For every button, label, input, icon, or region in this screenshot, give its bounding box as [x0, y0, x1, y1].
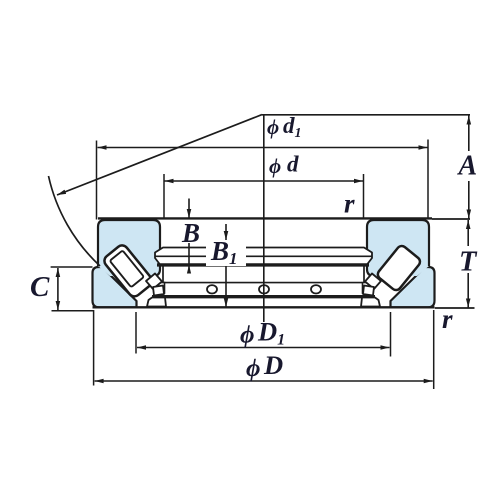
rivet circle right [311, 285, 321, 293]
ext line d1 left [96, 141, 98, 220]
cage bits left [146, 274, 162, 290]
svg-text:ϕ: ϕ [246, 355, 260, 382]
bearing top line [98, 217, 432, 219]
plate bottom thick edge [157, 263, 369, 266]
ext line D1 right [390, 312, 392, 357]
roller left [102, 243, 154, 299]
housing washer right lower block [391, 267, 435, 307]
svg-text:D: D [263, 350, 283, 380]
svg-text:ϕ: ϕ [269, 154, 281, 178]
plate chamfer line [155, 255, 372, 257]
sphere arc [49, 176, 101, 266]
rivet circle center [259, 285, 269, 293]
sleeve end line right [363, 266, 365, 284]
dim B1 tail bottom [225, 267, 227, 308]
shaft washer left upper block [98, 220, 160, 276]
dim T [467, 220, 469, 246]
cage end tab left [158, 283, 165, 294]
dim phi D1 [137, 347, 390, 349]
label B1 halo [206, 240, 246, 266]
dim B tail bottom [188, 243, 190, 271]
ext line D right [433, 310, 435, 389]
svg-text:r: r [344, 189, 355, 219]
dim B1 arrow top [225, 224, 227, 240]
svg-text:A: A [457, 151, 478, 182]
cage end tab right [363, 283, 370, 294]
svg-text:B: B [181, 218, 200, 248]
top reference line [262, 114, 470, 116]
svg-text:ϕ: ϕ [267, 115, 279, 139]
housing washer left lower block [93, 267, 137, 307]
ext line d1 right [427, 140, 429, 218]
bottom plate end left [151, 297, 153, 307]
bottom plate end right [374, 297, 376, 307]
C top ext [51, 266, 93, 268]
center axis line [263, 115, 265, 322]
ext line d left [163, 174, 165, 220]
svg-text:d: d [287, 152, 299, 177]
roller right [376, 244, 422, 292]
bearing bottom line [93, 306, 435, 308]
dim phi d [165, 180, 364, 182]
C bottom ext / phi D left ext [52, 311, 94, 386]
svg-text:ϕ: ϕ [240, 322, 254, 349]
leader diagonal [57, 115, 262, 195]
ext line D1 left [135, 312, 137, 354]
sleeve end line left [162, 266, 164, 284]
svg-text:d1: d1 [283, 113, 302, 141]
ext line d right [363, 174, 365, 220]
svg-text:r: r [442, 304, 453, 334]
dim phi d1 [98, 147, 428, 149]
dim C [57, 268, 59, 310]
A/T extension at top right [432, 218, 470, 220]
shaft washer right upper block [367, 220, 429, 276]
cage band [164, 282, 362, 284]
bottom right reference line [435, 307, 475, 309]
rivet circle left [207, 285, 217, 293]
svg-text:T: T [459, 247, 478, 278]
central washer plate (top) [155, 248, 372, 265]
svg-text:D1: D1 [257, 317, 285, 349]
dim phi D [95, 380, 433, 382]
dim A [468, 116, 470, 152]
cage bits right [365, 274, 381, 290]
svg-text:C: C [30, 271, 50, 303]
dim B arrow top [188, 199, 190, 219]
